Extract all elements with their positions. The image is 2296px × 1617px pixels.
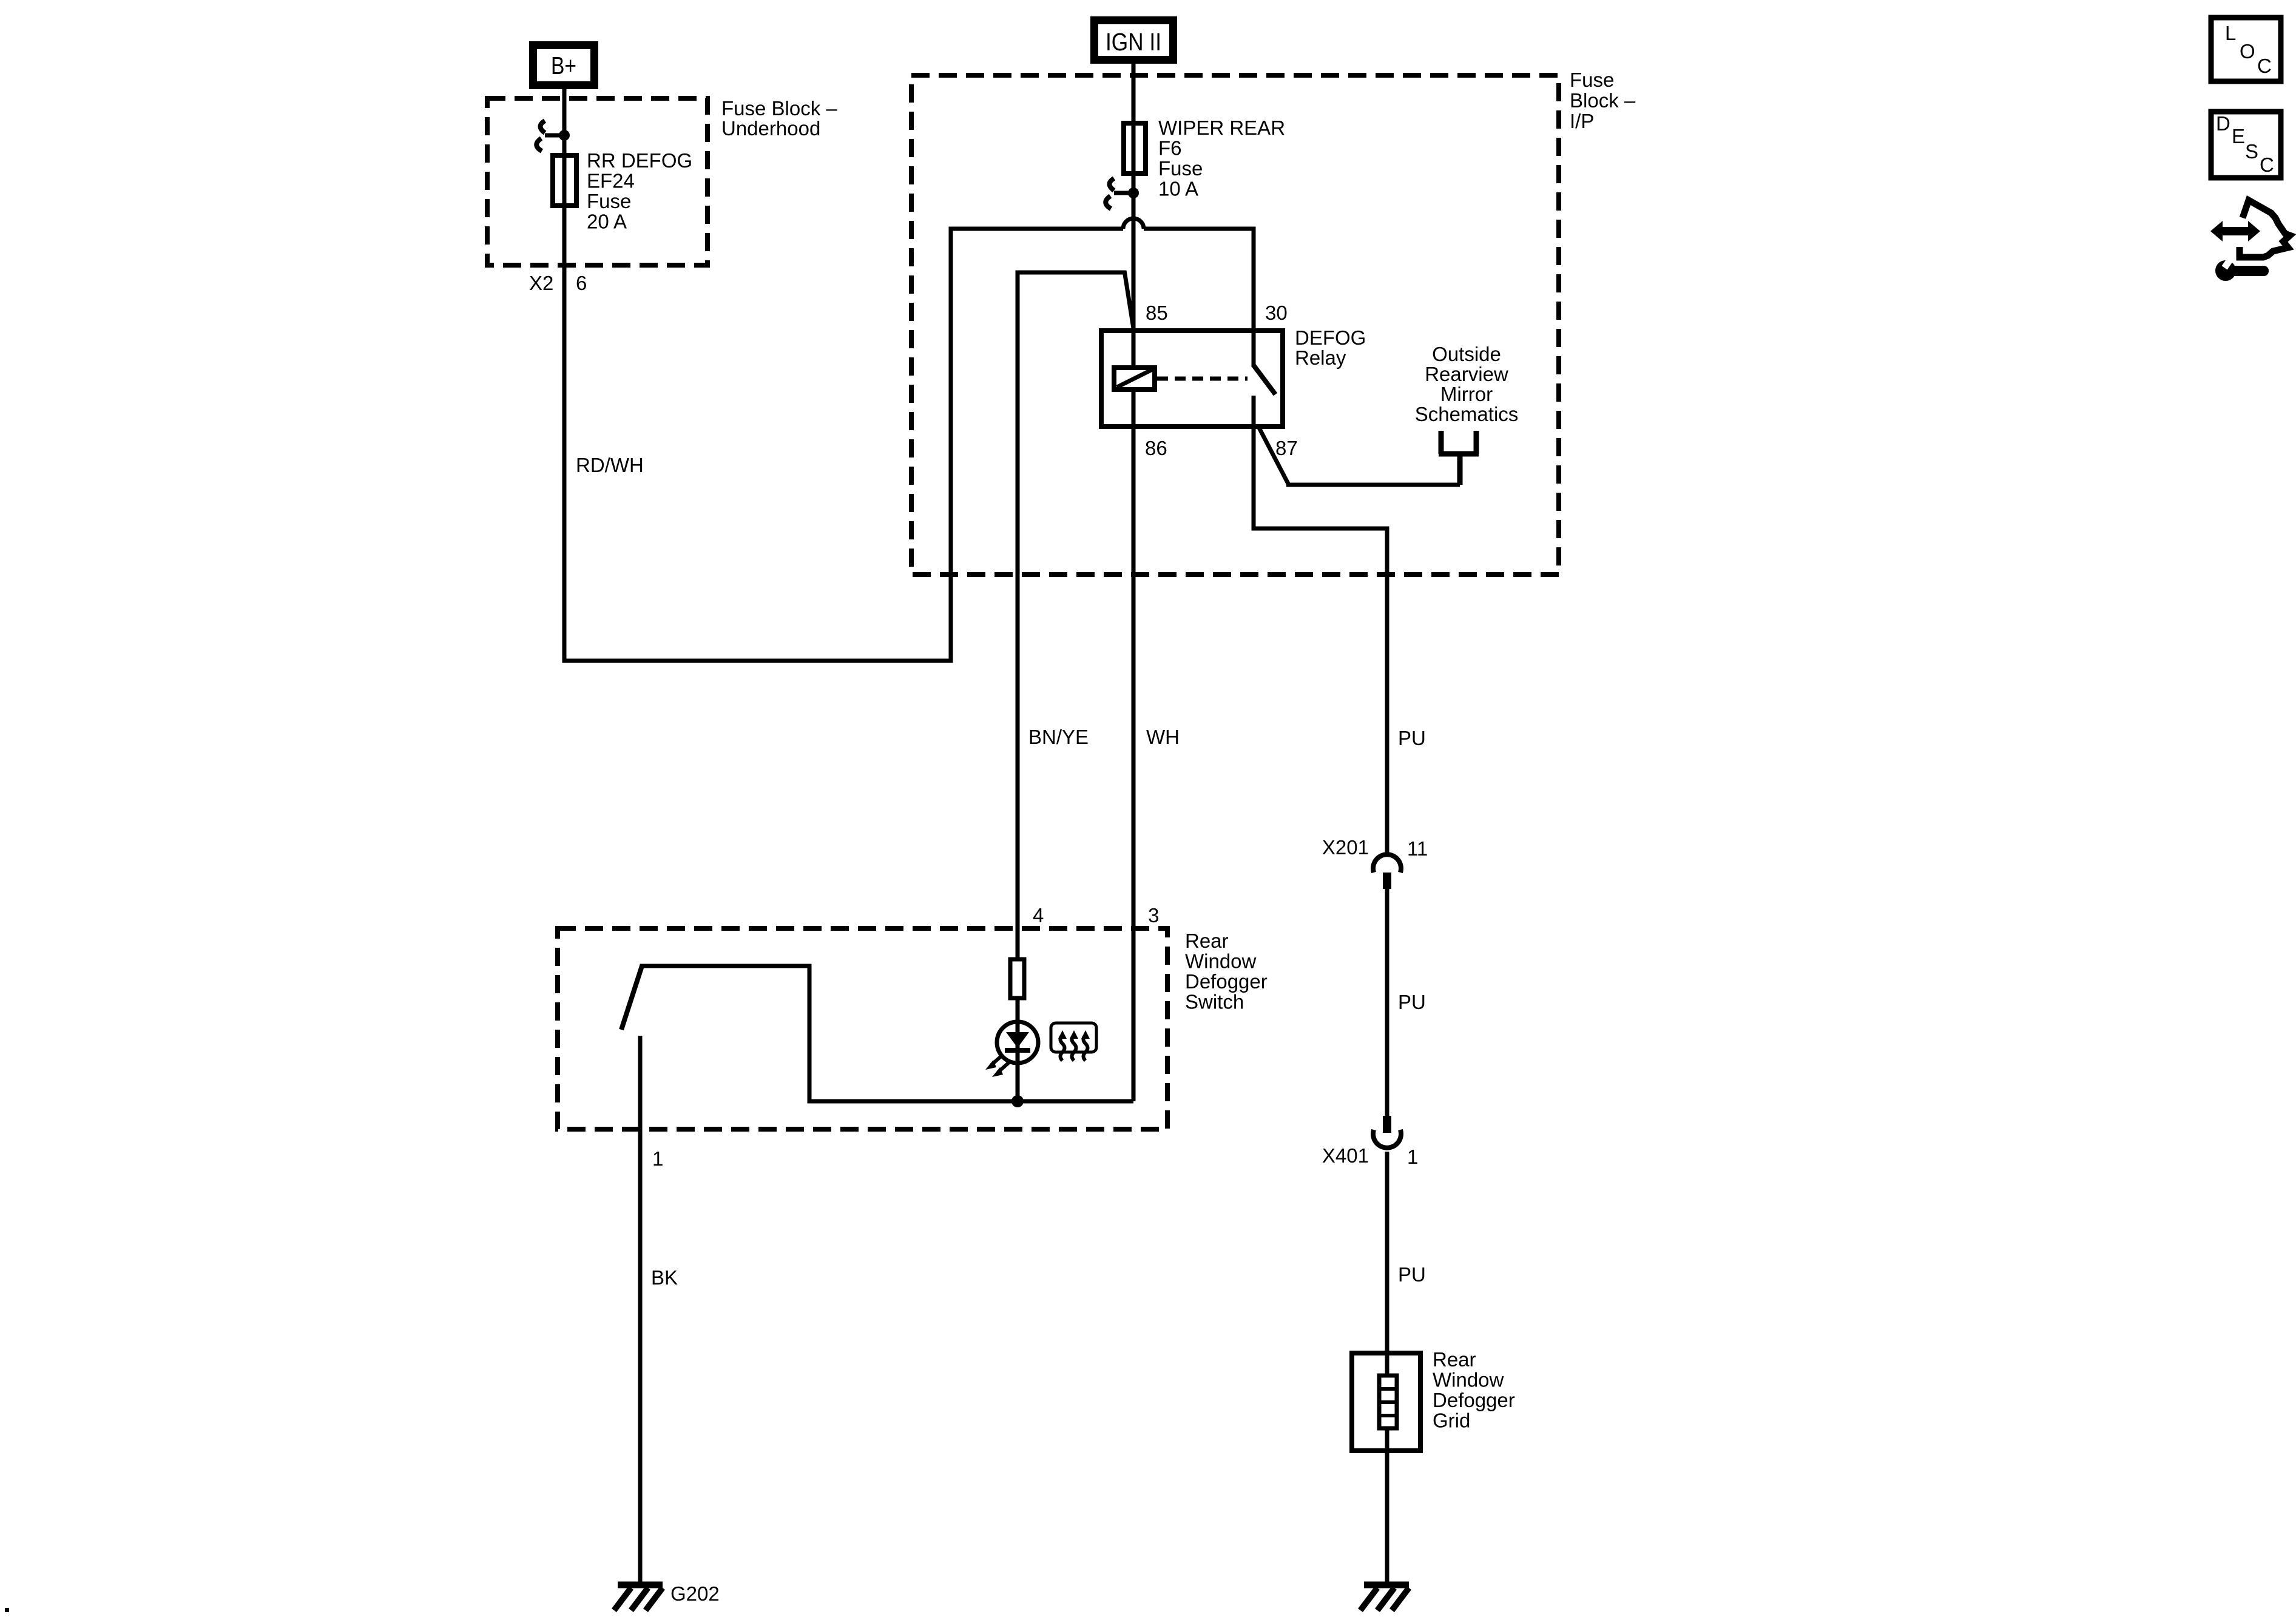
label WIPER REAR F6 fuse (1158, 116, 1285, 200)
wire IGN II feed down through fuse F6 relay coil to switch (1132, 64, 1136, 1101)
svg-text:85: 85 (1146, 302, 1168, 324)
fuse holder clip EF24 (536, 121, 570, 151)
svg-text:Rearview: Rearview (1425, 363, 1508, 385)
defog indicator icon (1051, 1023, 1096, 1061)
svg-text:RD/WH: RD/WH (576, 454, 644, 476)
fuse holder clip F6 (1106, 178, 1139, 209)
svg-text:Fuse Block –: Fuse Block – (721, 97, 837, 120)
svg-text:Switch: Switch (1185, 991, 1244, 1013)
wire BN/YE drop to switch pin 4 (1016, 271, 1020, 958)
svg-text:Window: Window (1185, 950, 1257, 973)
svg-text:PU: PU (1398, 1263, 1426, 1286)
relay actuation dashed link (1157, 377, 1248, 381)
wire PU drop to X201 (1385, 527, 1389, 857)
svg-text:F6: F6 (1158, 137, 1182, 160)
svg-text:WIPER REAR: WIPER REAR (1158, 116, 1285, 139)
fuse F6 (1124, 123, 1146, 174)
relay coil (1114, 368, 1155, 390)
svg-text:B+: B+ (551, 52, 576, 79)
label Rear Window Defogger Grid (1433, 1348, 1515, 1432)
svg-text:I/P: I/P (1570, 110, 1594, 132)
label DEFOG Relay (1295, 326, 1366, 369)
svg-text:X201: X201 (1322, 836, 1369, 859)
wire PU between connectors (1385, 889, 1389, 1116)
svg-text:BK: BK (651, 1266, 678, 1289)
switch lower contact wire to ground (638, 1036, 643, 1582)
svg-text:D: D (2216, 112, 2230, 135)
wire resistor to LED to bus (1016, 1000, 1020, 1101)
svg-text:G202: G202 (670, 1582, 720, 1605)
svg-text:1: 1 (652, 1147, 663, 1170)
svg-text:20 A: 20 A (587, 211, 627, 233)
svg-text:PU: PU (1398, 991, 1426, 1013)
switch resistor (1010, 959, 1024, 998)
svg-text:DEFOG: DEFOG (1295, 326, 1366, 349)
ground symbol G202 (614, 1585, 663, 1610)
svg-text:3: 3 (1148, 904, 1159, 927)
switch blade (621, 966, 642, 1030)
svg-text:10 A: 10 A (1158, 178, 1198, 200)
svg-text:Grid: Grid (1433, 1409, 1470, 1432)
label Outside Rearview Mirror Schematics (1415, 343, 1519, 425)
svg-text:S: S (2245, 140, 2258, 163)
wire BN/YE branch horizontal (1018, 271, 1126, 275)
svg-text:EF24: EF24 (587, 170, 635, 192)
relay DEFOG box (1101, 331, 1283, 427)
svg-text:C: C (2257, 55, 2272, 77)
svg-text:1: 1 (1407, 1146, 1418, 1168)
svg-text:Defogger: Defogger (1185, 970, 1268, 993)
label RR DEFOG EF24 fuse (587, 149, 692, 233)
wire pin 87 to PU run (1252, 527, 1388, 531)
wire horizontal to mirror symbol (1286, 483, 1460, 487)
svg-text:6: 6 (576, 272, 587, 294)
svg-text:86: 86 (1145, 437, 1167, 459)
wire hop over IGN wire (1123, 218, 1144, 229)
page artifact dot (5, 1608, 9, 1612)
svg-text:RR DEFOG: RR DEFOG (587, 149, 692, 172)
svg-text:Outside: Outside (1432, 343, 1501, 365)
fuse block IP dashed box (911, 75, 1559, 575)
rear window defogger switch dashed box (558, 928, 1167, 1129)
power symbol box IGN II (1095, 21, 1173, 60)
connector label X2 pin 6 (529, 272, 587, 294)
fuse EF24 (553, 155, 576, 206)
svg-text:Mirror: Mirror (1440, 383, 1493, 405)
wire slant to relay pin 85 (1124, 271, 1133, 328)
svg-text:30: 30 (1265, 302, 1288, 324)
svg-text:L: L (2225, 22, 2236, 44)
svg-text:Fuse: Fuse (587, 190, 631, 212)
wire relay pin 87 stub down (1252, 396, 1256, 528)
svg-text:X2: X2 (529, 272, 553, 294)
relay switch blade (1254, 365, 1275, 394)
svg-text:BN/YE: BN/YE (1028, 726, 1089, 748)
svg-text:Defogger: Defogger (1433, 1389, 1515, 1411)
svg-text:PU: PU (1398, 727, 1426, 749)
connector X401 (1373, 1116, 1401, 1148)
connector X201 (1373, 854, 1401, 889)
junction dot LED to bus (1011, 1095, 1024, 1107)
defogger grid element (1379, 1376, 1397, 1428)
svg-text:E: E (2232, 125, 2245, 147)
svg-text:Window: Window (1433, 1369, 1504, 1391)
svg-text:Underhood: Underhood (721, 117, 820, 140)
svg-text:O: O (2240, 40, 2255, 62)
svg-text:WH: WH (1146, 726, 1180, 748)
legend box LOC (2211, 18, 2281, 81)
legend icon arrow and wrench (2210, 200, 2290, 281)
svg-text:X401: X401 (1322, 1144, 1369, 1167)
svg-text:Fuse: Fuse (1570, 69, 1614, 91)
ground symbol grid (1360, 1585, 1409, 1610)
wire PU drop to grid (1385, 1152, 1389, 1376)
wire relay pin 30 drop (1252, 227, 1256, 368)
wire to relay pin 30 left segment (949, 227, 1124, 231)
svg-text:Rear: Rear (1433, 1348, 1476, 1371)
wire to relay pin 30 right segment (1144, 227, 1254, 231)
rear window defogger grid box (1352, 1353, 1420, 1451)
label Rear Window Defogger Switch (1185, 930, 1268, 1013)
svg-text:C: C (2260, 154, 2274, 176)
fuse block underhood dashed box (487, 98, 707, 265)
wire RD/WH horizontal run (562, 659, 951, 663)
svg-text:Rear: Rear (1185, 930, 1229, 952)
switch internal top link (642, 964, 1133, 1102)
svg-text:87: 87 (1275, 437, 1298, 459)
label Fuse Block IP (1570, 69, 1636, 132)
svg-text:Block –: Block – (1570, 89, 1636, 112)
legend box DESC (2211, 112, 2281, 178)
connector label X201 pin 11 (1322, 836, 1428, 860)
connector label X401 pin 1 (1322, 1144, 1418, 1168)
svg-text:Fuse: Fuse (1158, 157, 1203, 180)
mirror schematics continuation symbol (1439, 431, 1479, 485)
svg-text:Schematics: Schematics (1415, 403, 1519, 425)
label Fuse Block Underhood (721, 97, 837, 140)
svg-text:Relay: Relay (1295, 346, 1346, 369)
svg-text:11: 11 (1407, 837, 1428, 860)
wire B+ feed down through fuse EF24 to corner (562, 89, 567, 661)
wire grid to ground (1385, 1428, 1389, 1582)
indicator LED (985, 1022, 1038, 1077)
wire riser into fuse block IP (949, 229, 953, 663)
power symbol box B+ (533, 46, 595, 86)
wire pin 87 slant to mirror feed (1259, 428, 1289, 485)
svg-text:4: 4 (1033, 904, 1044, 927)
svg-text:IGN II: IGN II (1106, 28, 1161, 56)
